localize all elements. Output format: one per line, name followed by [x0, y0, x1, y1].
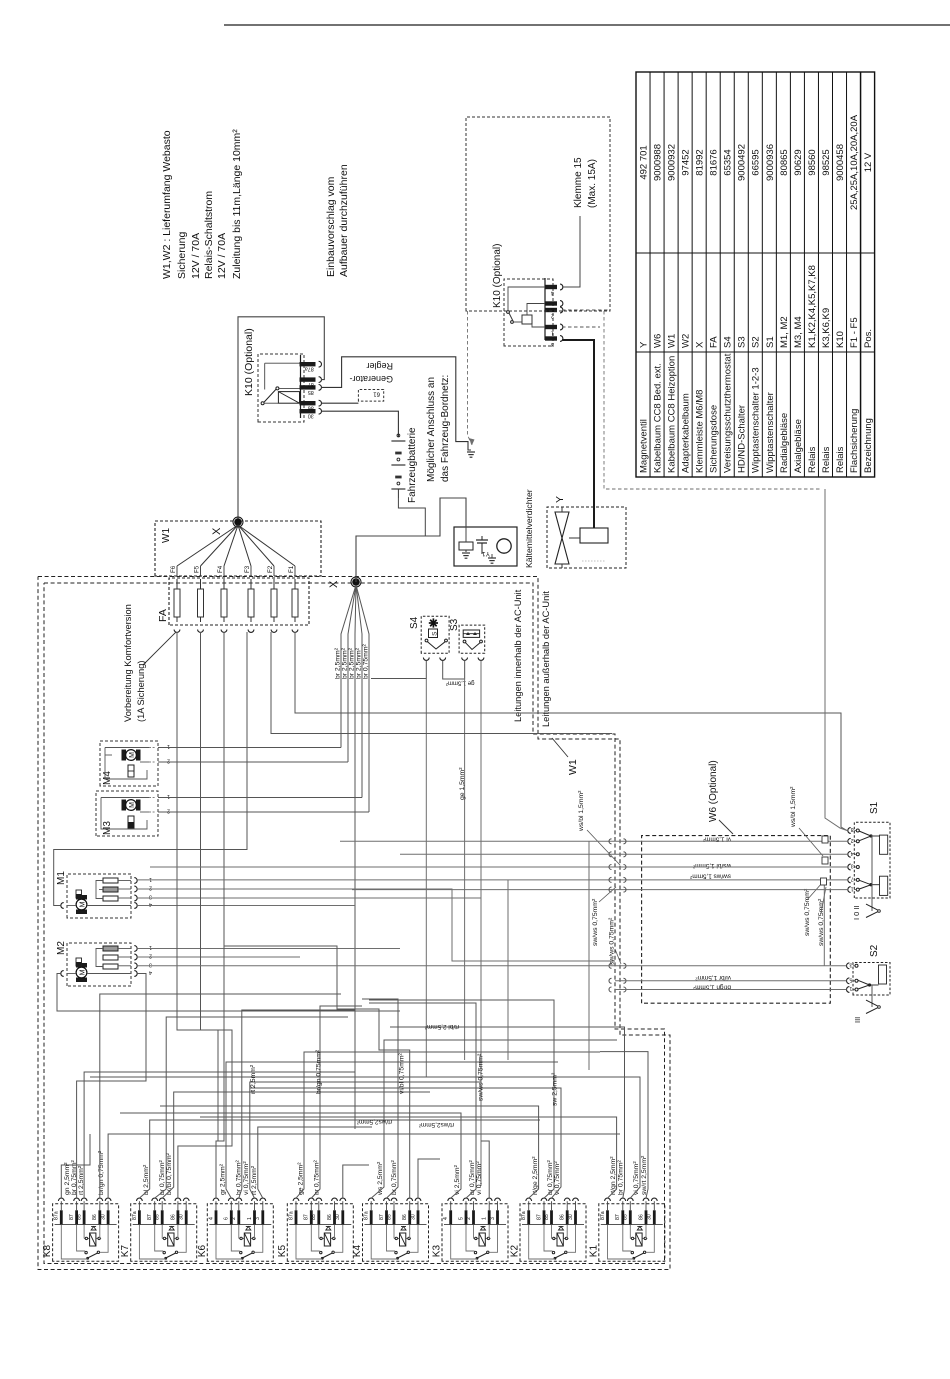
svg-text:br 0,75mm²: br 0,75mm²: [363, 644, 370, 679]
svg-text:12V / 70A: 12V / 70A: [216, 233, 228, 279]
svg-text:3: 3: [849, 962, 852, 968]
svg-text:Relais-Schaltstrom: Relais-Schaltstrom: [203, 191, 215, 279]
svg-text:K10 (Optional): K10 (Optional): [492, 244, 503, 308]
svg-text:Aufbauer durchzuführen: Aufbauer durchzuführen: [338, 164, 350, 277]
svg-text:4: 4: [149, 969, 152, 975]
wire M1 common to fuse F3: [54, 632, 247, 906]
Y1 motor circle: [497, 539, 511, 553]
svg-text:85: 85: [386, 1214, 392, 1220]
svg-text:das Fahrzeug-Bordnetz:: das Fahrzeug-Bordnetz:: [440, 375, 451, 482]
svg-text:gr 2,5mm²: gr 2,5mm²: [220, 1163, 227, 1195]
pointer from Vorbereitung label to FA: [143, 632, 176, 665]
svg-text:3: 3: [551, 341, 554, 347]
svg-text:85: 85: [623, 1214, 629, 1220]
svg-text:2: 2: [466, 1217, 472, 1220]
harness W6 dashed box: [642, 836, 831, 1004]
svg-text:4: 4: [149, 901, 152, 907]
svg-text:F5: F5: [194, 565, 201, 573]
svg-text:1: 1: [849, 985, 852, 991]
svg-text:vi/bl 0,75mm²: vi/bl 0,75mm²: [399, 1052, 406, 1094]
svg-text:1: 1: [149, 876, 152, 882]
svg-text:85: 85: [544, 1214, 550, 1220]
F2 wire: [271, 632, 612, 734]
S3 switch: [463, 640, 466, 643]
svg-text:S2: S2: [751, 336, 762, 348]
svg-text:W1: W1: [161, 528, 172, 543]
dashed leader from K10 box to ground: [468, 311, 473, 445]
svg-text:br 2,5mm²: br 2,5mm²: [356, 647, 363, 679]
svg-text:W6: W6: [652, 334, 663, 348]
magnet valve Y dashed box: [547, 507, 626, 568]
svg-text:ws/bl 1,5mm²: ws/bl 1,5mm²: [693, 862, 732, 869]
svg-text:rt/ws2,5mm²: rt/ws2,5mm²: [419, 1121, 454, 1128]
svg-text:Pos.: Pos.: [863, 329, 874, 348]
svg-text:rt/ws2,5mm²: rt/ws2,5mm²: [357, 1118, 392, 1125]
svg-text:30: 30: [101, 1214, 107, 1220]
svg-text:87a: 87a: [305, 366, 314, 372]
dashed leader from K10 box to S1 wire: [604, 311, 822, 489]
svg-text:4: 4: [443, 1217, 449, 1220]
svg-text:30: 30: [410, 1214, 416, 1220]
svg-text:gn 2,5mm²: gn 2,5mm²: [64, 1162, 71, 1195]
svg-text:30: 30: [647, 1214, 653, 1220]
svg-text:S4: S4: [723, 336, 734, 348]
svg-text:rt/gn 2,5mm²: rt/gn 2,5mm²: [610, 1156, 617, 1195]
M4 wires join br bundle: [158, 747, 341, 749]
svg-text:87a: 87a: [54, 1211, 60, 1220]
svg-text:Leitungen außerhalb der AC-Uni: Leitungen außerhalb der AC-Unit: [541, 591, 551, 727]
svg-text:K3,K6,K9: K3,K6,K9: [821, 308, 832, 348]
svg-text:Sicherung: Sicherung: [176, 232, 188, 279]
svg-text:3: 3: [490, 1217, 496, 1220]
svg-text:87a: 87a: [288, 1211, 294, 1220]
wire: K10 pin 4 to Klemme 15: [562, 216, 580, 287]
svg-text:12V / 70A: 12V / 70A: [190, 233, 202, 279]
svg-text:81676: 81676: [709, 149, 720, 175]
svg-text:86: 86: [92, 1214, 98, 1220]
M1 common pin top: [61, 903, 64, 909]
valve solenoid: [580, 528, 608, 543]
wire: battery negative joins riser: [398, 498, 425, 536]
Y1 clutch switch: [481, 543, 483, 554]
wire S2 pin3 = M2 pin3: [137, 965, 846, 967]
svg-text:25A,25A,10A,20A,20A: 25A,25A,10A,20A,20A: [849, 114, 860, 210]
svg-text:K5: K5: [277, 1245, 288, 1258]
X fan wires to fuse terminals: [177, 525, 238, 566]
tap wire at yl=589: [588, 841, 590, 1070]
svg-text:K10: K10: [835, 331, 846, 348]
svg-text:sw/ws 0,75mm²: sw/ws 0,75mm²: [804, 888, 811, 936]
svg-text:M3: M3: [102, 821, 113, 835]
svg-text:FA: FA: [709, 336, 720, 348]
svg-text:K8: K8: [42, 1245, 53, 1258]
Y1 coil: [459, 542, 473, 550]
wire: K10 pin 30 to battery: [321, 411, 398, 437]
svg-text:F6: F6: [170, 565, 177, 573]
svg-text:9000988: 9000988: [652, 144, 663, 181]
svg-text:1: 1: [482, 1217, 488, 1220]
svg-text:M: M: [129, 802, 136, 808]
svg-text:7: 7: [851, 876, 854, 882]
svg-text:85: 85: [77, 1214, 83, 1220]
svg-text:9000936: 9000936: [765, 144, 776, 181]
svg-text:vi 0,75mm²: vi 0,75mm²: [554, 1161, 561, 1195]
svg-text:K1,K2,K4,K5,K7,K8: K1,K2,K4,K5,K7,K8: [807, 265, 818, 348]
svg-text:2: 2: [851, 837, 854, 843]
svg-text:S: S: [431, 631, 438, 636]
svg-text:br 2,5mm²: br 2,5mm²: [335, 647, 342, 679]
svg-text:sw/rt 2,5mm²: sw/rt 2,5mm²: [641, 1155, 648, 1195]
wire S4 pin1 to br bundle: [371, 661, 426, 679]
fuse F at y=274: [273, 579, 275, 622]
svg-text:(Max. 15A): (Max. 15A): [587, 159, 598, 208]
svg-text:S3: S3: [737, 336, 748, 348]
svg-text:87a: 87a: [364, 1211, 370, 1220]
fuse F at y=251: [250, 579, 252, 622]
svg-text:8: 8: [851, 826, 854, 832]
svg-text:W1,W2 : Lieferumfang Webasto: W1,W2 : Lieferumfang Webasto: [161, 130, 173, 279]
svg-text:M1: M1: [56, 871, 67, 885]
svg-text:12 V: 12 V: [863, 152, 874, 172]
svg-text:sw/ws 0,75mm²: sw/ws 0,75mm²: [592, 898, 599, 946]
svg-text:S1: S1: [765, 336, 776, 348]
svg-text:vi 0,75mm²: vi 0,75mm²: [243, 1161, 250, 1195]
svg-text:S2: S2: [869, 944, 880, 957]
svg-text:br/gn 0,75mm²: br/gn 0,75mm²: [98, 1150, 105, 1195]
svg-text:6: 6: [224, 1217, 230, 1220]
svg-text:85: 85: [308, 389, 314, 395]
svg-text:Generator-: Generator-: [349, 374, 393, 384]
connector X / W1 dashed box: [155, 521, 321, 576]
M3 pins: [149, 797, 156, 799]
heavy wire: Y solenoid to K10 pin 3: [562, 340, 594, 528]
svg-text:Radialgebläse: Radialgebläse: [779, 413, 790, 473]
svg-text:sw 2,5mm²: sw 2,5mm²: [552, 1072, 559, 1106]
svg-text:X: X: [328, 580, 340, 588]
svg-text:K4: K4: [352, 1245, 363, 1258]
svg-text:3: 3: [149, 894, 152, 900]
wire X2 to compressor: [356, 498, 466, 582]
border frame line (top edge in portrait): [224, 24, 950, 26]
svg-text:Wipptastenschalter 1-2-3: Wipptastenschalter 1-2-3: [751, 367, 762, 473]
wire sw/ws M1 pin1 to S1 pin7: [137, 879, 848, 881]
svg-text:87: 87: [379, 1214, 385, 1220]
M2 pin wires into mesh: [137, 948, 400, 950]
svg-text:K3: K3: [432, 1245, 443, 1258]
svg-text:3: 3: [149, 962, 152, 968]
relay K10 switch contact: [276, 387, 279, 390]
svg-text:F4: F4: [217, 565, 224, 573]
svg-text:Leitungen innerhalb der AC-Uni: Leitungen innerhalb der AC-Unit: [513, 589, 523, 722]
svg-text:vi/br 1,5mm²: vi/br 1,5mm²: [695, 974, 731, 981]
node X junction: [235, 519, 241, 525]
svg-text:Axialgebläse: Axialgebläse: [793, 419, 804, 473]
svg-text:Kältemittelverdichter: Kältemittelverdichter: [524, 489, 534, 568]
svg-text:2: 2: [149, 885, 152, 891]
svg-text:Relais: Relais: [807, 446, 818, 473]
wire: Y1 coil to box edge: [465, 527, 467, 542]
svg-text:HD/ND-Schalter: HD/ND-Schalter: [737, 405, 748, 473]
dashed wires from pins 1,2: [562, 309, 608, 311]
svg-text:F1: F1: [288, 565, 295, 573]
svg-text:Y: Y: [554, 496, 566, 503]
svg-text:S4: S4: [409, 616, 420, 629]
svg-text:87: 87: [536, 1214, 542, 1220]
S2 selector line + arrow: [871, 985, 873, 1007]
valve bowtie: [555, 538, 569, 564]
svg-text:Klemmleiste M6/M8: Klemmleiste M6/M8: [695, 390, 706, 473]
svg-text:66595: 66595: [751, 149, 762, 175]
svg-text:sw/ws 1,5mm²: sw/ws 1,5mm²: [690, 873, 731, 880]
svg-text:61: 61: [373, 391, 380, 397]
splice connector rects: [822, 836, 828, 843]
svg-text:vi 0,75mm²: vi 0,75mm²: [633, 1161, 640, 1195]
svg-text:1: 1: [851, 885, 854, 891]
svg-text:vi 0,75mm²: vi 0,75mm²: [476, 1161, 483, 1195]
svg-text:87a: 87a: [132, 1211, 138, 1220]
svg-text:Y: Y: [638, 341, 649, 348]
svg-text:rt/bl 2,5mm²: rt/bl 2,5mm²: [425, 1023, 459, 1030]
svg-text:Kabelbaum CC8 Bed. ext.: Kabelbaum CC8 Bed. ext.: [652, 363, 663, 473]
svg-text:1: 1: [167, 793, 170, 799]
svg-text:Magnetventil: Magnetventil: [638, 419, 649, 473]
M4 pins: [149, 747, 156, 749]
svg-text:br 2,5mm²: br 2,5mm²: [342, 647, 349, 679]
M1 pin wires into mesh: [137, 889, 615, 961]
svg-text:30: 30: [308, 413, 314, 419]
svg-text:Fahrzeugbatterie: Fahrzeugbatterie: [407, 427, 418, 503]
svg-text:Flachsicherung: Flachsicherung: [849, 409, 860, 473]
svg-text:1: 1: [551, 330, 554, 336]
svg-text:ge 1,5mm²: ge 1,5mm²: [459, 767, 466, 800]
wire S1 pin1: [352, 889, 848, 891]
fuse F at y=177: [176, 579, 178, 622]
svg-text:III: III: [853, 1017, 862, 1023]
svg-text:K6: K6: [197, 1245, 208, 1258]
tiny print row: [582, 560, 606, 562]
svg-text:87a: 87a: [521, 1211, 527, 1220]
svg-text:Vereisungsschutzthermostat: Vereisungsschutzthermostat: [723, 353, 734, 473]
svg-text:S1: S1: [869, 801, 880, 814]
branch sw/ws to S2 region: [823, 880, 825, 966]
svg-text:86: 86: [170, 1214, 176, 1220]
svg-text:Bezeichnung: Bezeichnung: [863, 418, 874, 473]
wire S4 pin1 long branch: [425, 679, 427, 1078]
ground Bordnetz: [467, 451, 475, 453]
svg-text:2: 2: [167, 808, 170, 814]
svg-text:Relais: Relais: [835, 446, 846, 473]
svg-text:Sicherungsdose: Sicherungsdose: [709, 405, 720, 473]
svg-text:K10 (Optional): K10 (Optional): [243, 328, 255, 396]
wire to S1 pin8 from K10 leader: [825, 489, 847, 831]
svg-text:2: 2: [231, 1217, 237, 1220]
svg-text:K7: K7: [120, 1245, 131, 1258]
fuse F at y=295: [294, 579, 296, 622]
wire S3 pin1 long ge: [464, 661, 466, 1061]
S1 rocker contacts: [856, 829, 859, 832]
wire S2 pin1 br/gn: [615, 989, 847, 991]
svg-text:97452: 97452: [681, 149, 692, 175]
svg-text:M4: M4: [102, 771, 113, 785]
svg-text:ws/bl 1,5mm²: ws/bl 1,5mm²: [790, 786, 797, 828]
svg-text:M1, M2: M1, M2: [779, 316, 790, 348]
svg-text:W6 (Optional): W6 (Optional): [708, 760, 719, 822]
svg-text:86: 86: [308, 405, 314, 411]
svg-text:30: 30: [568, 1214, 574, 1220]
svg-text:86: 86: [402, 1214, 408, 1220]
M1 pins: [134, 878, 137, 884]
svg-text:87: 87: [615, 1214, 621, 1220]
svg-text:86: 86: [560, 1214, 566, 1220]
S4 switch: [425, 639, 428, 642]
compressor unit Y1 box: [454, 527, 517, 566]
svg-text:FA: FA: [157, 609, 169, 622]
fuse F at y=200.5: [200, 579, 202, 622]
br wire bundle from X2: [341, 585, 356, 748]
svg-text:F3: F3: [244, 565, 251, 573]
svg-text:Möglicher Anschluss an: Möglicher Anschluss an: [426, 377, 437, 482]
svg-text:5: 5: [458, 1217, 464, 1220]
svg-text:sw/ws 0,75mm²: sw/ws 0,75mm²: [478, 1053, 485, 1101]
label pointers near S1: [799, 828, 823, 856]
svg-text:9000492: 9000492: [737, 144, 748, 181]
svg-text:2: 2: [167, 758, 170, 764]
F1 wire to S1: [295, 632, 847, 831]
svg-text:F1 - F5: F1 - F5: [849, 317, 860, 348]
svg-text:Wipptastenschalter: Wipptastenschalter: [765, 392, 776, 473]
svg-text:ge 1,5mm²: ge 1,5mm²: [446, 680, 475, 686]
wire loop S4 pin2 - S3 pin1: [443, 661, 465, 680]
svg-text:4: 4: [208, 1217, 214, 1220]
svg-text:30: 30: [179, 1214, 185, 1220]
svg-text:ws/bl 1,5mm²: ws/bl 1,5mm²: [578, 790, 585, 832]
svg-text:9000932: 9000932: [667, 144, 678, 181]
svg-text:br 2,5mm²: br 2,5mm²: [349, 647, 356, 679]
svg-text:85: 85: [155, 1214, 161, 1220]
wire S2 pin5 vi/br: [615, 980, 847, 982]
M3 wires join br bundle: [158, 797, 362, 799]
svg-text:87: 87: [304, 1214, 310, 1220]
svg-text:98525: 98525: [821, 149, 832, 175]
svg-text:ws 2,5mm²: ws 2,5mm²: [377, 1161, 384, 1196]
generator terminal 61 box: [358, 390, 383, 402]
tap wire at yl=508: [507, 880, 509, 1060]
svg-text:1: 1: [149, 944, 152, 950]
svg-text:98560: 98560: [807, 149, 818, 175]
svg-text:Adapterkabelbaum: Adapterkabelbaum: [681, 393, 692, 473]
svg-text:Einbauvorschlag vom: Einbauvorschlag vom: [325, 176, 337, 277]
M4 internal loop: [105, 748, 147, 780]
svg-text:9000458: 9000458: [835, 144, 846, 181]
svg-text:Y1: Y1: [482, 550, 490, 557]
svg-text:K1: K1: [588, 1245, 599, 1258]
wire: X node to K10 pin 87: [238, 317, 324, 521]
svg-text:3: 3: [851, 863, 854, 869]
svg-text:W2: W2: [681, 334, 692, 348]
wire: K10 pin 85 to ground (Bordnetz): [321, 357, 471, 450]
svg-text:86: 86: [638, 1214, 644, 1220]
svg-text:M: M: [79, 969, 86, 975]
svg-text:rt 2,5mm²: rt 2,5mm²: [250, 1064, 257, 1094]
svg-text:81992: 81992: [695, 149, 706, 175]
svg-text:80865: 80865: [779, 149, 790, 175]
W1 harness outer dashed boundary: [38, 577, 670, 1270]
svg-text:Kabelbaum CC8 Heizoption: Kabelbaum CC8 Heizoption: [667, 356, 678, 473]
svg-text:Zuleitung bis 11m,Länge 10mm²: Zuleitung bis 11m,Länge 10mm²: [231, 129, 243, 279]
svg-text:3: 3: [255, 1217, 261, 1220]
svg-text:W1: W1: [567, 759, 579, 775]
svg-text:90629: 90629: [793, 149, 804, 175]
svg-text:Klemme 15: Klemme 15: [573, 157, 584, 208]
svg-text:492 701: 492 701: [638, 145, 649, 179]
svg-text:Relais: Relais: [821, 446, 832, 473]
svg-text:86: 86: [327, 1214, 333, 1220]
svg-text:S3: S3: [449, 618, 460, 631]
svg-text:1: 1: [247, 1217, 253, 1220]
fuse output wires: [176, 632, 178, 850]
svg-text:X: X: [211, 527, 223, 535]
svg-text:M3, M4: M3, M4: [793, 316, 804, 348]
svg-text:87: 87: [147, 1214, 153, 1220]
wire S3 pin2 long: [480, 661, 482, 1187]
svg-text:K2: K2: [510, 1245, 521, 1258]
svg-text:sw/ws 0,75mm²: sw/ws 0,75mm²: [609, 917, 616, 965]
relay K10 coil: [278, 392, 299, 404]
svg-text:5: 5: [849, 977, 852, 983]
wire M2 common down left: [57, 974, 400, 1012]
S3/S4 pin bumps: [423, 658, 429, 661]
svg-text:Vorbereitung Komfortversion: Vorbereitung Komfortversion: [123, 604, 133, 722]
svg-text:87: 87: [69, 1214, 75, 1220]
boundary crossing bumps: [609, 839, 612, 844]
svg-text:Regler: Regler: [366, 361, 393, 371]
dashed box around K10 connector area: [466, 117, 610, 311]
battery Fahrzeugbatterie: [391, 440, 405, 442]
svg-text:rt 2,5mm²: rt 2,5mm²: [251, 1165, 258, 1195]
svg-text:I 0 II: I 0 II: [852, 905, 861, 920]
svg-text:M: M: [129, 752, 136, 758]
svg-text:2: 2: [551, 313, 554, 319]
S1 selector line + arrow: [871, 835, 873, 911]
svg-text:87: 87: [308, 381, 314, 387]
svg-text:W1: W1: [667, 334, 678, 348]
wire S1 pin4: [400, 853, 848, 855]
svg-text:4: 4: [851, 850, 854, 856]
svg-text:br/gn 0,75mm²: br/gn 0,75mm²: [316, 1049, 323, 1094]
svg-text:85: 85: [311, 1214, 317, 1220]
svg-text:br 0,75mm²: br 0,75mm²: [618, 1160, 625, 1195]
svg-text:M: M: [79, 901, 86, 907]
AC-unit inner dashed boundary: [44, 583, 665, 1264]
wire M2 pin4 to K8.87: [77, 974, 146, 1147]
svg-text:87a: 87a: [600, 1211, 606, 1220]
node X2 junction: [353, 579, 359, 585]
K10 connector internals: [522, 315, 532, 324]
wire ws/bl to S1 pin3: [150, 866, 848, 868]
parts list table: [636, 72, 875, 477]
S4 S-symbol: [429, 629, 438, 638]
wire: K10 pin 86 to generator terminal 61: [321, 402, 358, 404]
M2 pins: [134, 946, 137, 952]
svg-text:1: 1: [167, 743, 170, 749]
svg-text:30: 30: [335, 1214, 341, 1220]
M1 resistors: [103, 896, 118, 901]
svg-text:65354: 65354: [723, 149, 734, 175]
svg-text:(1A Sicherung): (1A Sicherung): [136, 661, 146, 723]
svg-text:X: X: [695, 341, 706, 348]
svg-text:2: 2: [149, 953, 152, 959]
svg-text:F2: F2: [267, 565, 274, 573]
